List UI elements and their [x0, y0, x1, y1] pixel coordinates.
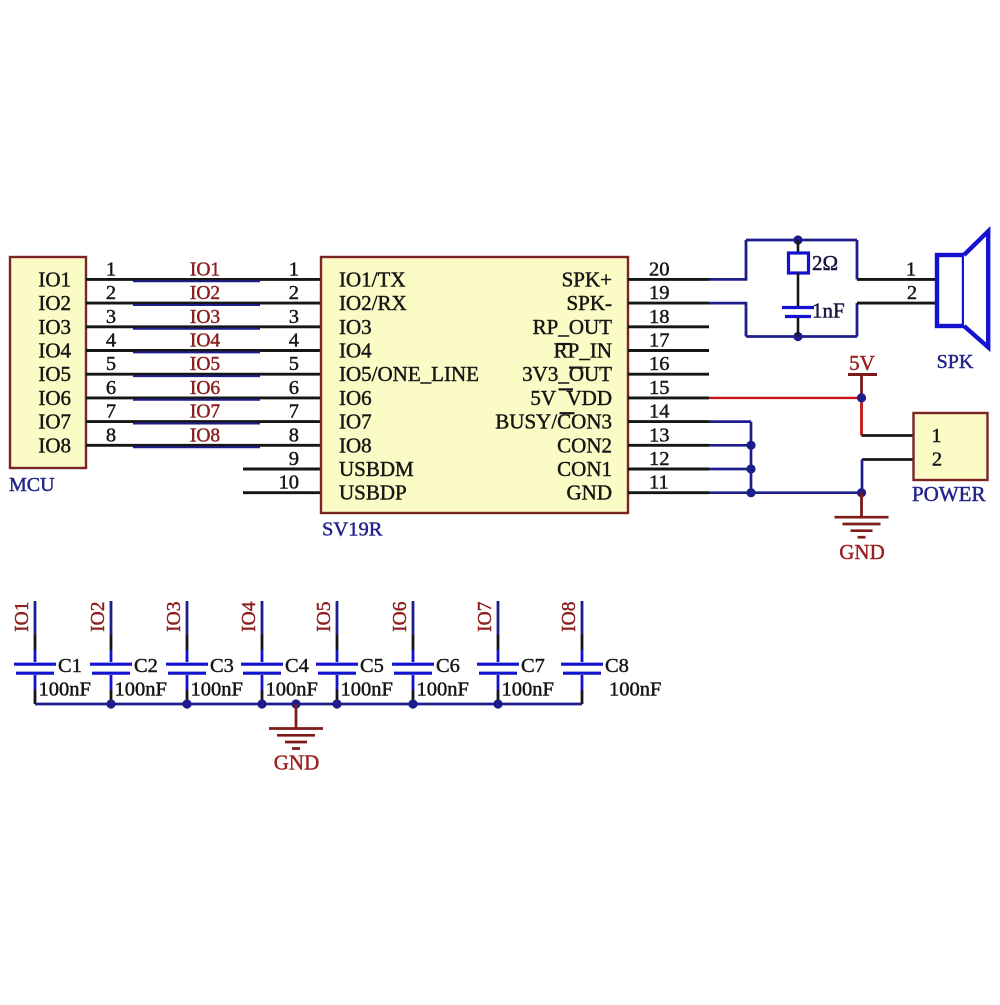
- svg-text:MCU: MCU: [9, 474, 55, 496]
- svg-text:CON1: CON1: [557, 457, 612, 481]
- svg-text:IO5: IO5: [38, 362, 71, 386]
- svg-text:2: 2: [907, 282, 917, 304]
- svg-text:8: 8: [106, 424, 116, 446]
- svg-text:IO6: IO6: [190, 378, 221, 399]
- svg-text:12: 12: [649, 448, 670, 470]
- svg-text:5: 5: [289, 353, 299, 375]
- svg-text:C2: C2: [134, 655, 158, 677]
- svg-text:IO2: IO2: [88, 602, 109, 632]
- svg-text:C6: C6: [436, 655, 460, 677]
- svg-text:5: 5: [106, 353, 116, 375]
- svg-text:IO5/ONE_LINE: IO5/ONE_LINE: [339, 362, 479, 386]
- svg-text:100nF: 100nF: [609, 679, 661, 701]
- svg-text:IO7: IO7: [190, 402, 221, 423]
- svg-text:1: 1: [106, 258, 116, 280]
- svg-text:10: 10: [279, 472, 300, 494]
- svg-text:IO4: IO4: [339, 339, 372, 363]
- svg-text:IO4: IO4: [38, 339, 71, 363]
- svg-text:IO5: IO5: [190, 354, 220, 375]
- svg-text:IO3: IO3: [339, 315, 372, 339]
- svg-text:RP_OUT: RP_OUT: [533, 315, 613, 339]
- svg-text:3: 3: [289, 306, 299, 328]
- svg-text:IO1: IO1: [38, 267, 71, 291]
- svg-text:GND: GND: [839, 540, 885, 564]
- svg-text:BUSY/CON3: BUSY/CON3: [495, 410, 612, 434]
- svg-text:6: 6: [106, 377, 116, 399]
- svg-text:2: 2: [106, 282, 116, 304]
- svg-text:9: 9: [289, 448, 299, 470]
- svg-text:C7: C7: [521, 655, 545, 677]
- svg-text:GND: GND: [274, 751, 320, 775]
- svg-text:20: 20: [649, 258, 670, 280]
- svg-text:IO2: IO2: [38, 291, 71, 315]
- svg-text:4: 4: [289, 330, 299, 352]
- svg-text:17: 17: [649, 330, 670, 352]
- svg-text:C3: C3: [210, 655, 234, 677]
- svg-text:RP_IN: RP_IN: [554, 339, 612, 363]
- svg-text:2: 2: [932, 449, 942, 471]
- svg-text:6: 6: [289, 377, 299, 399]
- svg-text:USBDP: USBDP: [339, 481, 407, 505]
- svg-text:IO3: IO3: [38, 315, 71, 339]
- svg-text:14: 14: [649, 401, 670, 423]
- svg-text:3: 3: [106, 306, 116, 328]
- svg-text:5V: 5V: [849, 351, 875, 375]
- svg-text:C8: C8: [605, 655, 629, 677]
- svg-text:IO8: IO8: [190, 425, 220, 446]
- svg-text:100nF: 100nF: [417, 679, 469, 701]
- svg-text:11: 11: [649, 472, 669, 494]
- svg-text:100nF: 100nF: [266, 679, 318, 701]
- svg-text:100nF: 100nF: [39, 679, 91, 701]
- svg-text:100nF: 100nF: [502, 679, 554, 701]
- svg-text:IO6: IO6: [339, 386, 372, 410]
- svg-text:IO7: IO7: [339, 410, 372, 434]
- svg-text:IO6: IO6: [390, 601, 411, 632]
- svg-text:IO4: IO4: [239, 601, 260, 632]
- svg-text:100nF: 100nF: [115, 679, 167, 701]
- svg-text:SPK: SPK: [937, 351, 974, 373]
- svg-text:4: 4: [106, 330, 116, 352]
- svg-text:IO4: IO4: [190, 331, 221, 352]
- svg-text:CON2: CON2: [557, 433, 612, 457]
- svg-text:IO7: IO7: [38, 410, 71, 434]
- svg-text:8: 8: [289, 424, 299, 446]
- svg-text:IO3: IO3: [190, 307, 220, 328]
- svg-text:IO1: IO1: [12, 602, 33, 632]
- svg-text:1nF: 1nF: [812, 299, 845, 323]
- svg-text:IO8: IO8: [559, 602, 580, 632]
- svg-text:IO2: IO2: [190, 283, 220, 304]
- svg-text:IO3: IO3: [164, 602, 185, 632]
- svg-text:18: 18: [649, 306, 670, 328]
- svg-text:3V3_OUT: 3V3_OUT: [522, 362, 612, 386]
- svg-text:7: 7: [106, 401, 116, 423]
- svg-text:16: 16: [649, 353, 670, 375]
- svg-text:C5: C5: [360, 655, 384, 677]
- svg-text:IO6: IO6: [38, 386, 71, 410]
- svg-text:IO7: IO7: [475, 601, 496, 632]
- svg-text:13: 13: [649, 424, 670, 446]
- svg-text:IO8: IO8: [339, 433, 372, 457]
- svg-text:IO5: IO5: [314, 602, 335, 632]
- svg-text:IO2/RX: IO2/RX: [339, 291, 407, 315]
- svg-text:IO8: IO8: [38, 433, 71, 457]
- svg-text:1: 1: [289, 258, 299, 280]
- svg-text:POWER: POWER: [912, 482, 986, 506]
- svg-text:GND: GND: [567, 481, 613, 505]
- svg-text:C4: C4: [285, 655, 309, 677]
- svg-text:IO1/TX: IO1/TX: [339, 267, 406, 291]
- svg-text:100nF: 100nF: [191, 679, 243, 701]
- svg-text:100nF: 100nF: [341, 679, 393, 701]
- svg-text:SPK+: SPK+: [562, 267, 612, 291]
- svg-text:19: 19: [649, 282, 670, 304]
- svg-text:7: 7: [289, 401, 299, 423]
- svg-text:C1: C1: [58, 655, 82, 677]
- svg-text:IO1: IO1: [190, 259, 220, 280]
- svg-text:1: 1: [906, 258, 916, 280]
- svg-text:2: 2: [289, 282, 299, 304]
- svg-text:15: 15: [649, 377, 670, 399]
- svg-text:2Ω: 2Ω: [812, 251, 838, 275]
- svg-text:USBDM: USBDM: [339, 457, 414, 481]
- svg-text:SV19R: SV19R: [322, 519, 383, 541]
- svg-text:SPK-: SPK-: [566, 291, 612, 315]
- svg-text:1: 1: [931, 425, 941, 447]
